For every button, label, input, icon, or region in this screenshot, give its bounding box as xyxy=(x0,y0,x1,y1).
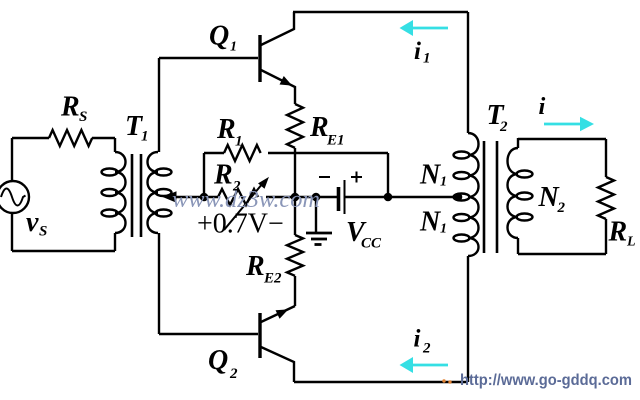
svg-text:2: 2 xyxy=(557,200,566,216)
svg-text:1: 1 xyxy=(235,134,243,150)
wire source loop right xyxy=(114,138,116,251)
wire T2 secondary leads xyxy=(517,138,519,254)
svg-text:1: 1 xyxy=(440,175,447,190)
svg-text:1: 1 xyxy=(423,51,431,67)
resistor RS xyxy=(49,130,92,146)
resistor R2 xyxy=(218,189,258,205)
resistor RE1 xyxy=(287,104,303,148)
current arrow i2 xyxy=(400,357,449,373)
svg-text:R: R xyxy=(309,112,329,143)
R2 adjust arrow xyxy=(224,183,263,230)
wire source loop left xyxy=(11,138,13,251)
resistor RE2 xyxy=(294,197,296,235)
svg-text:Q: Q xyxy=(209,21,229,52)
resistor R1 xyxy=(224,145,261,161)
svg-text:1: 1 xyxy=(230,40,237,55)
wire load loop xyxy=(518,139,606,254)
wire bias line xyxy=(204,153,388,197)
svg-text:R: R xyxy=(213,160,233,191)
node center tap arrow T1 xyxy=(164,192,176,202)
source sine xyxy=(1,189,26,206)
svg-text:R: R xyxy=(216,114,236,145)
svg-text:R: R xyxy=(60,92,80,123)
svg-text:i: i xyxy=(539,93,546,120)
svg-text:E1: E1 xyxy=(326,133,345,149)
transformer T1 primary winding xyxy=(115,152,126,233)
source vS circle xyxy=(0,181,29,213)
svg-text:N: N xyxy=(419,160,442,191)
wire RE1 to center node xyxy=(294,148,296,197)
svg-text:i: i xyxy=(414,326,421,353)
svg-text:v: v xyxy=(26,207,39,238)
svg-text:S: S xyxy=(79,109,87,125)
svg-text:2: 2 xyxy=(499,119,508,135)
svg-text:R: R xyxy=(608,217,628,248)
svg-text:R: R xyxy=(245,251,265,282)
svg-text:+0.7V−: +0.7V− xyxy=(197,209,284,240)
resistor RL xyxy=(598,177,614,219)
transformer T2 core xyxy=(484,141,497,253)
svg-text:CC: CC xyxy=(361,236,382,252)
svg-text:http://www.go-gddq.com: http://www.go-gddq.com xyxy=(460,372,632,389)
transformer T2 secondary winding N2 xyxy=(508,148,519,238)
svg-text:L: L xyxy=(626,235,636,250)
current arrow i xyxy=(544,117,594,131)
battery VCC xyxy=(337,187,341,211)
svg-text:N: N xyxy=(419,207,442,238)
svg-text:2: 2 xyxy=(422,341,431,357)
svg-text:2: 2 xyxy=(232,179,241,195)
svg-text:i: i xyxy=(414,38,421,65)
transistor Q2 xyxy=(258,313,261,358)
wire center tap row xyxy=(176,196,456,198)
transformer T2 primary winding N1 xyxy=(468,133,479,256)
current arrow i1 xyxy=(400,20,449,36)
svg-text:1: 1 xyxy=(440,222,447,237)
svg-text:E2: E2 xyxy=(263,271,282,287)
wire source loop top xyxy=(12,137,115,139)
wire bottom rail xyxy=(294,381,468,383)
wire T1 secondary top to Q1 base xyxy=(159,58,258,152)
svg-text:2: 2 xyxy=(229,366,238,382)
svg-text:S: S xyxy=(39,224,47,240)
transformer T1 core xyxy=(132,154,141,237)
transistor Q1 xyxy=(258,35,261,82)
svg-text:1: 1 xyxy=(141,129,149,145)
wire top rail xyxy=(293,11,468,13)
wire source loop bottom xyxy=(12,250,115,252)
svg-text:Q: Q xyxy=(208,345,228,376)
transformer T1 secondary winding xyxy=(148,152,159,233)
wire right rail xyxy=(467,12,469,382)
wire T1 secondary bottom to Q2 base xyxy=(159,233,258,334)
node junction dots xyxy=(200,193,209,202)
ground xyxy=(315,197,317,232)
